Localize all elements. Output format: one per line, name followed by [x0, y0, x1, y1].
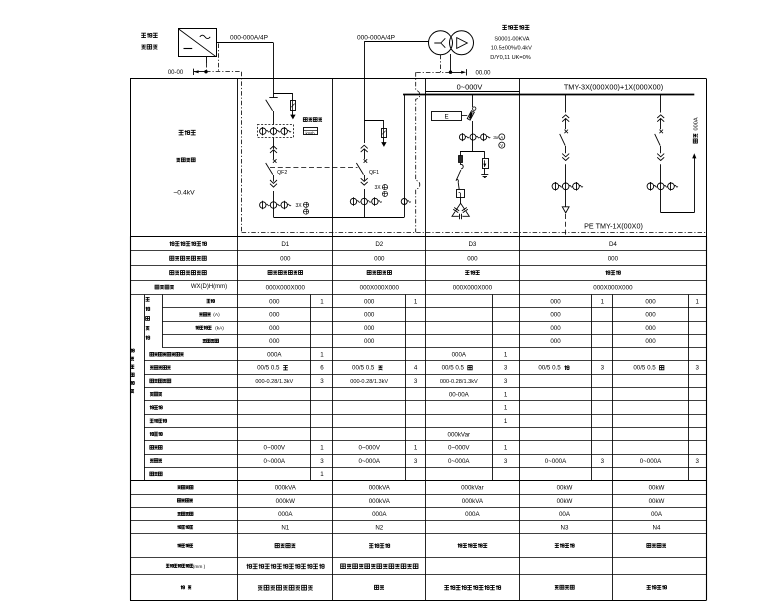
svg-text:TMY-3X(000X00)+1X(000X00): TMY-3X(000X00)+1X(000X00) — [564, 83, 663, 92]
wire: D1 to drawout — [273, 138, 275, 149]
svg-text:000kVA: 000kVA — [275, 485, 297, 492]
svg-text:000A: 000A — [372, 511, 387, 518]
svg-text:00kW: 00kW — [649, 485, 665, 492]
label: 3X meters D1 — [296, 202, 309, 214]
svg-text:6: 6 — [320, 365, 324, 372]
vertical label: LV circuit breaker — [146, 297, 150, 339]
svg-text:3: 3 — [414, 458, 418, 465]
svg-text:4: 4 — [414, 365, 418, 372]
label: PE busbar spec — [584, 222, 643, 231]
wire: inverter bottom stub — [206, 57, 208, 72]
main busbar 0.4kV — [403, 94, 694, 96]
wire: D3 split — [460, 140, 485, 152]
svg-text:000: 000 — [467, 255, 478, 262]
svg-text:3: 3 — [504, 458, 508, 465]
svg-text:3: 3 — [320, 378, 324, 385]
svg-text:0~000V: 0~000V — [264, 445, 286, 452]
svg-text:0~000V: 0~000V — [358, 445, 380, 452]
svg-text:3: 3 — [320, 458, 324, 465]
surge arrester D3 — [483, 152, 489, 169]
ground symbol — [481, 168, 488, 177]
svg-text:(A): (A) — [213, 312, 220, 318]
label: busbar spec TMY — [564, 83, 663, 92]
svg-text:QF2: QF2 — [277, 170, 287, 176]
wire: D1 down to bus — [273, 208, 275, 217]
svg-text:0~000V: 0~000V — [457, 83, 483, 92]
label: 00.00 cable mark — [475, 70, 491, 76]
inverter source label — [141, 33, 157, 49]
svg-text:000kVar: 000kVar — [461, 485, 484, 492]
svg-text:000-0.28/1.3kV: 000-0.28/1.3kV — [350, 379, 388, 385]
node: DC link point — [205, 70, 208, 73]
svg-text:1: 1 — [414, 445, 418, 452]
CT group TA5 D3 — [459, 133, 490, 141]
transformer T1 — [429, 31, 474, 55]
svg-text:000: 000 — [645, 325, 656, 332]
fuse F2 — [382, 128, 387, 138]
svg-text:D3: D3 — [468, 241, 476, 248]
svg-text:000: 000 — [608, 255, 619, 262]
label: inverter feeder cable — [230, 34, 268, 41]
breaker QF2 — [266, 159, 277, 181]
label: metering device — [303, 118, 322, 122]
label: ~0.4kV — [173, 190, 195, 197]
svg-text:00kW: 00kW — [649, 498, 665, 505]
label: 3X meters D2 — [375, 185, 388, 197]
svg-text:N4: N4 — [653, 524, 661, 531]
svg-text:1: 1 — [320, 445, 324, 452]
wire: D1 fuse branch — [274, 94, 293, 101]
svg-text:0~000A: 0~000A — [358, 458, 380, 465]
svg-text:000: 000 — [364, 325, 375, 332]
label: D2 feeder cable — [357, 34, 395, 41]
svg-text:(mm ): (mm ) — [193, 564, 206, 570]
svg-text:000-000A/4P: 000-000A/4P — [357, 34, 395, 41]
label QF1 — [369, 170, 379, 176]
svg-text:000: 000 — [645, 338, 656, 345]
svg-text:000X000X000: 000X000X000 — [593, 284, 633, 291]
drawout contacts lower D2 — [361, 178, 368, 198]
row headers — [150, 241, 227, 589]
svg-text:00/5 0.5: 00/5 0.5 — [633, 365, 656, 372]
schematic outer frame — [130, 79, 707, 237]
svg-text:0~000V: 0~000V — [448, 445, 470, 452]
svg-text:V: V — [500, 143, 503, 148]
svg-text:000: 000 — [550, 312, 561, 319]
svg-text:000: 000 — [374, 255, 385, 262]
fuse F1 — [291, 101, 296, 111]
svg-text:00A: 00A — [559, 511, 571, 518]
cabinet divider lines — [238, 79, 520, 237]
svg-text:000: 000 — [364, 338, 375, 345]
wire: D2 incoming from transformer — [364, 42, 429, 144]
svg-text:00/5 0.5: 00/5 0.5 — [538, 365, 561, 372]
svg-text:1: 1 — [504, 445, 508, 452]
svg-text:D/Y0,11 UK=0%: D/Y0,11 UK=0% — [490, 55, 530, 61]
svg-text:3x: 3x — [493, 135, 499, 141]
svg-text:000: 000 — [269, 298, 280, 305]
cabinet boundary dash-dot bottom — [242, 232, 706, 234]
svg-text:00-00: 00-00 — [168, 70, 184, 76]
transformer nameplate text — [490, 25, 532, 61]
svg-text:D4: D4 — [609, 241, 617, 248]
svg-text:S0001-00KVA: S0001-00KVA — [494, 36, 529, 42]
cabinet boundary dash-dot right with hops — [416, 72, 449, 232]
cable head N3 — [562, 190, 569, 237]
CT group TA2 D1 outgoing — [260, 201, 291, 209]
node: transformer secondary — [449, 71, 452, 74]
wire: riser to main busbar — [403, 95, 405, 218]
svg-text:3: 3 — [601, 458, 605, 465]
table grid vertical lines — [131, 237, 707, 601]
svg-text:1: 1 — [695, 298, 699, 305]
svg-text:00/5 0.5: 00/5 0.5 — [442, 365, 465, 372]
svg-text:1: 1 — [320, 352, 324, 359]
wire: D1-D2 bottom bus — [274, 217, 405, 219]
kWh meter box — [303, 128, 317, 136]
label: single line diagram title — [179, 130, 196, 135]
svg-text:3: 3 — [695, 458, 699, 465]
metering CT dashed box — [258, 125, 294, 138]
svg-text:(kA): (kA) — [215, 325, 224, 331]
svg-text:1: 1 — [504, 418, 508, 425]
svg-text:1: 1 — [320, 298, 324, 305]
svg-text:3: 3 — [695, 365, 699, 372]
svg-text:N3: N3 — [561, 524, 569, 531]
svg-text:000A: 000A — [465, 511, 480, 518]
svg-text:000A: 000A — [452, 352, 467, 359]
svg-text:000: 000 — [269, 338, 280, 345]
CT group TA1 (metering) — [260, 127, 291, 135]
svg-text:000-0.28/1.3kV: 000-0.28/1.3kV — [255, 379, 293, 385]
svg-text:000: 000 — [269, 312, 280, 319]
svg-text:3: 3 — [504, 378, 508, 385]
svg-text:0~000A: 0~000A — [640, 458, 662, 465]
svg-text:3X: 3X — [375, 185, 382, 191]
svg-text:00kW: 00kW — [557, 498, 573, 505]
svg-text:000: 000 — [280, 255, 291, 262]
drawout contacts upper D1 — [270, 146, 277, 159]
svg-text:1: 1 — [504, 405, 508, 412]
cabinet boundary dash-dot left — [206, 44, 242, 233]
interlock dashed wire QF2-QF1 — [270, 167, 358, 169]
svg-text:1: 1 — [601, 298, 605, 305]
svg-text:00A: 00A — [651, 511, 663, 518]
svg-text:000kW: 000kW — [276, 498, 295, 505]
energy meter E box — [432, 112, 468, 121]
feeder circuit N4 breaker chain — [647, 95, 678, 191]
svg-text:3: 3 — [504, 365, 508, 372]
svg-text:D1: D1 — [281, 241, 289, 248]
svg-text:000A: 000A — [267, 352, 282, 359]
svg-text:00-00A: 00-00A — [449, 391, 470, 398]
svg-text:1: 1 — [504, 352, 508, 359]
svg-text:0~000A: 0~000A — [264, 458, 286, 465]
busbar label cell line — [426, 91, 520, 93]
svg-text:000X000X000: 000X000X000 — [360, 284, 400, 291]
svg-text:N1: N1 — [281, 524, 289, 531]
table grid horizontal lines — [130, 237, 707, 601]
svg-text:kWh: kWh — [306, 131, 316, 136]
svg-text:000: 000 — [550, 325, 561, 332]
svg-text:A: A — [500, 135, 503, 140]
vertical label: main electrical components — [130, 349, 134, 393]
svg-text:000: 000 — [550, 298, 561, 305]
svg-text:000kVA: 000kVA — [369, 485, 391, 492]
svg-text:D2: D2 — [375, 241, 383, 248]
contactor switch D3 — [456, 163, 463, 190]
label: 00-00 cable mark — [168, 70, 184, 76]
svg-text:~0.4kV: ~0.4kV — [173, 190, 195, 197]
label: busbar voltage 0~000V — [457, 83, 483, 92]
label: 3x A V meters — [493, 134, 505, 148]
svg-text:3: 3 — [601, 365, 605, 372]
svg-text:000X000X000: 000X000X000 — [266, 284, 306, 291]
inverter U1 box — [179, 29, 217, 57]
svg-text:WX(D)H(mm): WX(D)H(mm) — [191, 284, 227, 290]
svg-text:1: 1 — [320, 471, 324, 478]
wire: inverter output — [216, 42, 274, 44]
svg-text:000kVA: 000kVA — [369, 498, 391, 505]
arrow: F1 discharge down — [290, 110, 295, 119]
thermal relay box D3 — [457, 190, 465, 198]
svg-text:000X000X000: 000X000X000 — [453, 284, 493, 291]
svg-text:0~000A: 0~000A — [448, 458, 470, 465]
label QF2 — [277, 170, 287, 176]
fuse F3 capacitor branch — [459, 152, 463, 163]
feeder circuit N3 breaker chain — [552, 95, 583, 191]
svg-text:0~000A: 0~000A — [545, 458, 567, 465]
CT group TA3 D2 — [350, 197, 381, 205]
drawout contacts upper D2 — [361, 145, 368, 159]
svg-text:000: 000 — [645, 298, 656, 305]
svg-text:00/5 0.5: 00/5 0.5 — [352, 365, 375, 372]
svg-text:00/5 0.5: 00/5 0.5 — [257, 365, 280, 372]
svg-text:00kW: 00kW — [557, 485, 573, 492]
svg-text:1: 1 — [414, 298, 418, 305]
svg-text:000: 000 — [645, 312, 656, 319]
fused disconnect D3 — [467, 107, 476, 134]
svg-text:10.5±00%/0.4kV: 10.5±00%/0.4kV — [491, 46, 532, 52]
svg-text:000kVar: 000kVar — [448, 431, 471, 438]
disconnect switch D1 top — [266, 98, 278, 125]
wire: transformer secondary drop — [450, 54, 452, 72]
wire: D1 incoming drop — [273, 43, 275, 98]
svg-text:3: 3 — [414, 378, 418, 385]
breaker QF1 — [356, 159, 367, 180]
arrow: F2 discharge down — [381, 137, 386, 147]
drawout contacts lower D1 — [270, 180, 277, 202]
svg-text:1: 1 — [504, 391, 508, 398]
svg-text:E: E — [445, 113, 449, 120]
svg-text:000-0.28/1.3kV: 000-0.28/1.3kV — [440, 379, 478, 385]
label: rated voltage — [176, 158, 195, 162]
svg-text:000: 000 — [364, 312, 375, 319]
wire: N4 outgoing up — [661, 153, 697, 212]
svg-text:00.00: 00.00 — [475, 70, 491, 76]
arrow: cable direction right — [451, 69, 467, 75]
svg-text:PE TMY-1X(00X0): PE TMY-1X(00X0) — [584, 222, 643, 231]
svg-text:N2: N2 — [375, 524, 383, 531]
svg-text:000A: 000A — [694, 117, 700, 130]
CT TA4 on riser — [401, 198, 411, 206]
svg-text:000kVA: 000kVA — [462, 498, 484, 505]
capacitor bank delta — [452, 198, 469, 220]
svg-text:3X: 3X — [296, 203, 303, 209]
svg-text:000: 000 — [269, 325, 280, 332]
label: outgoing riser (vertical) — [693, 117, 699, 143]
wire: D3 tap — [472, 95, 474, 107]
svg-text:000-000A/4P: 000-000A/4P — [230, 34, 268, 41]
svg-text:000A: 000A — [278, 511, 293, 518]
wire: D2 down to bus — [364, 205, 366, 218]
svg-text:000: 000 — [364, 298, 375, 305]
wire: D2 fuse branch — [364, 121, 384, 129]
table data cells — [246, 241, 699, 590]
transformer secondary dash-dot — [440, 55, 442, 72]
arrow: cable direction left — [194, 69, 207, 75]
svg-text:QF1: QF1 — [369, 170, 379, 176]
svg-text:000: 000 — [550, 338, 561, 345]
